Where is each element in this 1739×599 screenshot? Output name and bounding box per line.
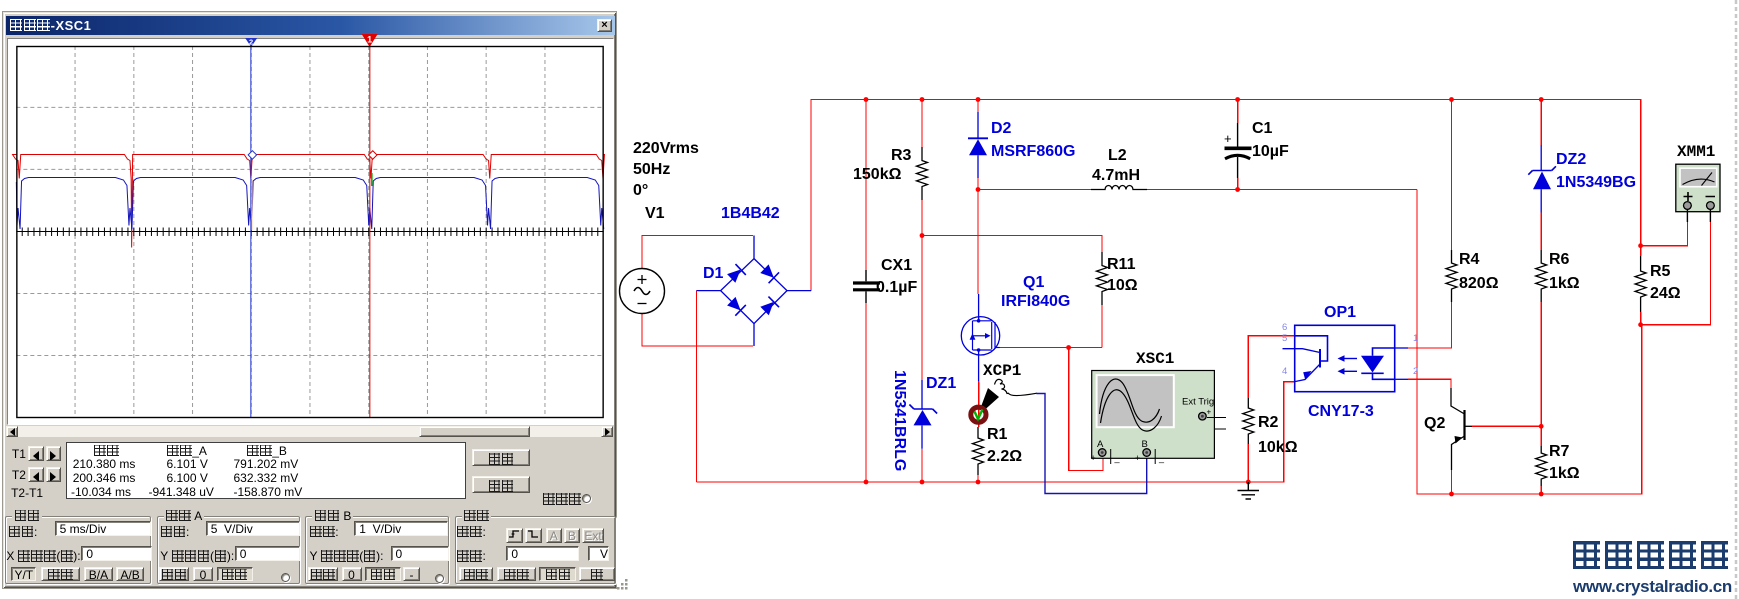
wire D2 anode to node [977,178,979,190]
svg-text:R6: R6 [1549,251,1570,268]
svg-text:V1: V1 [645,205,665,222]
page border [1735,0,1738,599]
svg-text:XSC1: XSC1 [1136,350,1174,368]
wire R3 top lead [921,100,923,148]
svg-text:1N5349BG: 1N5349BG [1556,174,1636,191]
svg-text:IRFI840G: IRFI840G [1001,293,1070,310]
wire C1 top lead [1237,100,1239,124]
wire R4 to OP1 pin1 [1408,302,1452,348]
wire DZ2 bottom lead blue [1540,189,1542,212]
OP1 pin numbers [1282,322,1418,377]
zener DZ1 [909,405,937,426]
svg-text:10Ω: 10Ω [1107,277,1138,294]
wire ground rail [697,382,1295,482]
wire OP1 pin1 stub [1395,347,1408,349]
resistor R5 [1635,256,1646,312]
bridge diamond D1 [721,259,787,324]
wire bridge stub left [697,290,721,292]
svg-text:0°: 0° [633,182,648,199]
diode D2 [968,138,988,155]
zener DZ2 [1528,166,1556,189]
svg-text:10µF: 10µF [1252,143,1289,160]
svg-text:R4: R4 [1459,251,1480,268]
wire CX1 branch lower [865,303,867,482]
svg-text:_: _ [1158,453,1165,463]
wire C1 bottom lead [1237,178,1239,190]
svg-text:C1: C1 [1252,120,1273,137]
svg-text:1B4B42: 1B4B42 [721,205,780,222]
wire CX1 branch upper [865,100,867,271]
svg-text:2: 2 [1413,366,1418,377]
svg-text:4.7mH: 4.7mH [1092,167,1140,184]
wire V1 bottom to bridge [642,314,753,347]
svg-text:DZ2: DZ2 [1556,151,1586,168]
wire top rail [811,100,1641,292]
wire Q1 drain lead blue [978,294,980,321]
wire R4 top lead [1451,100,1453,251]
wire OP1 pin5 to R2 [1248,336,1294,398]
wire R3 to DZ1 [921,200,923,380]
wire D2 top lead [977,100,979,113]
svg-text:1kΩ: 1kΩ [1549,465,1580,482]
svg-text:Q2: Q2 [1424,415,1445,432]
capacitor C1 polarized [1224,123,1252,178]
wire OP1 pin2 stub [1395,378,1408,380]
svg-text:R7: R7 [1549,443,1570,460]
svg-text:D1: D1 [703,265,724,282]
svg-text:220Vrms: 220Vrms [633,140,699,157]
svg-text:+: + [1207,408,1212,417]
resistor R1 [973,427,984,475]
svg-text:XMM1: XMM1 [1677,143,1715,161]
wire DZ1 bottom lead [921,449,923,482]
wire D2 cathode lead [977,112,979,138]
wire R2 bottom lead [1247,444,1249,482]
wire R5 top lead [1640,246,1642,256]
svg-text:4: 4 [1282,366,1287,377]
diode D1a bridge top-left [726,264,746,284]
inductor L2 [1091,186,1147,190]
wire Q2 emitter to lower rail [1451,470,1453,494]
svg-text:+: + [1091,453,1096,463]
wire R11 bottom lead [1101,305,1103,348]
svg-text:_: _ [1114,453,1121,463]
wire bridge minus drop [696,291,698,482]
watermark crystalradio [1571,541,1730,571]
svg-text:L2: L2 [1108,147,1127,164]
capacitor CX1 [853,270,880,303]
svg-text:DZ1: DZ1 [926,375,956,392]
svg-text:1N5341BRLG: 1N5341BRLG [891,370,908,471]
wire OP1 pin2 to Q2 collector [1408,379,1451,388]
wire scope A tap [1069,348,1103,471]
svg-text:24Ω: 24Ω [1650,285,1681,302]
wire XMM1 plus lead [1641,222,1688,246]
AC source V1 [620,269,665,314]
wire DZ1 bottom lead [921,425,923,448]
svg-text:Q1: Q1 [1023,274,1044,291]
svg-text:+: + [1224,131,1232,146]
svg-text:MSRF860G: MSRF860G [991,143,1075,160]
wire gate feed rail [922,236,1102,253]
svg-text:5: 5 [1282,333,1287,344]
resistor R7 [1536,446,1547,486]
svg-text:1kΩ: 1kΩ [1549,275,1580,292]
svg-text:XCP1: XCP1 [983,362,1021,380]
wire R5 bottom lead [1640,312,1642,325]
resistor R2 [1243,398,1254,444]
svg-text:6: 6 [1282,322,1287,333]
wire R7 bottom lead [1540,486,1542,494]
wire DZ2 top lead [1540,100,1542,146]
svg-text:CNY17-3: CNY17-3 [1308,403,1374,420]
probe output wire to scope B [1036,394,1146,494]
svg-text:D2: D2 [991,120,1012,137]
svg-text:2: 2 [249,37,253,46]
svg-text:2.2Ω: 2.2Ω [987,448,1022,465]
oscilloscope icon XSC1 [1091,371,1227,465]
wire bridge stub top [753,236,755,259]
svg-text:+: + [1135,453,1140,463]
wire Q1 drain [977,190,979,295]
wire Q1 source lead blue [978,350,980,381]
svg-text:R5: R5 [1650,263,1671,280]
wire D2 anode lead [977,155,979,178]
wire bridge stub bottom [753,324,755,346]
transistor Q2 [1451,388,1472,470]
ground [1238,482,1260,499]
svg-text:0.1µF: 0.1µF [876,279,917,296]
wire Q1 source to probe [978,381,980,427]
wire Q2 base feed [1472,425,1541,427]
current probe XCP1 [971,379,1037,422]
diode D1c bridge bottom-left [726,296,746,316]
wire DZ2 top lead blue [1540,145,1542,170]
svg-text:CX1: CX1 [881,257,912,274]
svg-text:R3: R3 [891,147,912,164]
resistor R6 [1536,250,1547,302]
diode D1b bridge top-right [759,263,779,283]
wire XMM1 minus lead [1641,222,1711,325]
svg-text:10kΩ: 10kΩ [1258,439,1298,456]
svg-text:1: 1 [367,34,372,44]
wire output drop to lower rail [1417,190,1642,495]
svg-text:Ext Trig: Ext Trig [1182,397,1214,408]
wire gate rail [1000,347,1102,349]
svg-text:1: 1 [1413,333,1418,344]
resistor R3 [917,147,928,200]
svg-text:820Ω: 820Ω [1459,275,1499,292]
multimeter icon XMM1 [1676,164,1720,222]
wire DZ2 to R6 [1540,213,1542,251]
svg-text:R1: R1 [987,426,1008,443]
wire output rail segment right [1146,189,1417,191]
svg-text:R11: R11 [1107,256,1136,273]
wire output rail segment left [978,189,1091,191]
wire R1 bottom lead [977,475,979,482]
window resize grip [615,578,631,592]
diode D1d bridge bottom-right [759,297,779,317]
wire R6 to node [1540,302,1542,446]
wire DZ1 top lead [921,380,923,409]
MOSFET Q1 [961,317,999,355]
resistor R4 [1446,250,1457,302]
svg-text:OP1: OP1 [1324,304,1356,321]
wire V1 top to bridge [642,236,753,269]
svg-text:R2: R2 [1258,414,1279,431]
resistor R11 [1097,252,1108,305]
svg-text:150kΩ: 150kΩ [853,166,902,183]
optocoupler OP1 [1283,325,1395,391]
svg-text:50Hz: 50Hz [633,161,670,178]
wire bridge stub right [787,290,811,292]
